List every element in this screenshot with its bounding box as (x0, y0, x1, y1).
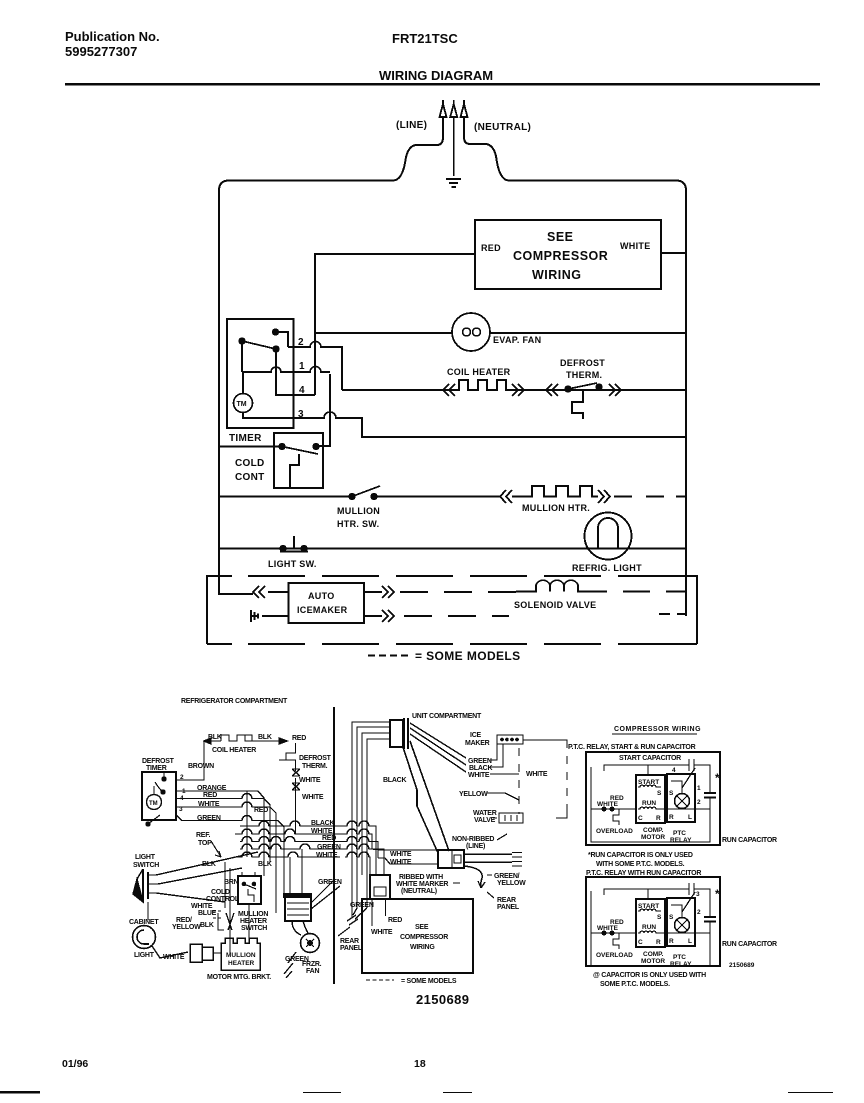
svg-text:REAR: REAR (497, 897, 516, 904)
svg-text:SWITCH: SWITCH (241, 925, 267, 932)
svg-text:(LINE): (LINE) (466, 843, 485, 850)
svg-text:BRN: BRN (224, 879, 239, 886)
svg-text:2: 2 (298, 337, 304, 348)
svg-text:= SOME MODELS: = SOME MODELS (415, 649, 521, 663)
svg-text:EVAP. FAN: EVAP. FAN (493, 335, 541, 345)
svg-text:WHITE: WHITE (302, 794, 324, 801)
svg-text:WHITE: WHITE (299, 777, 321, 784)
svg-text:GREEN: GREEN (468, 758, 492, 765)
svg-text:GREEN/: GREEN/ (494, 873, 520, 880)
svg-text:BLK: BLK (258, 734, 272, 741)
svg-text:WHITE: WHITE (620, 241, 651, 251)
svg-text:UNIT COMPARTMENT: UNIT COMPARTMENT (412, 713, 482, 720)
svg-text:COLD: COLD (211, 889, 230, 896)
svg-text:MULLION HTR.: MULLION HTR. (522, 503, 590, 513)
svg-text:RIBBED WITH: RIBBED WITH (399, 874, 443, 881)
svg-text:SOME P.T.C. MODELS.: SOME P.T.C. MODELS. (600, 981, 670, 988)
svg-text:BLACK: BLACK (311, 820, 334, 827)
svg-text:CONTROL: CONTROL (206, 896, 240, 903)
svg-text:RED: RED (388, 917, 402, 924)
svg-text:LIGHT: LIGHT (135, 854, 156, 861)
svg-text:AUTO: AUTO (308, 591, 335, 601)
svg-text:BLK: BLK (208, 734, 222, 741)
svg-text:WHITE: WHITE (390, 859, 412, 866)
svg-text:NON-RIBBED: NON-RIBBED (452, 836, 494, 843)
svg-text:REAR: REAR (340, 938, 359, 945)
svg-text:BLACK: BLACK (469, 765, 492, 772)
svg-text:FRT21TSC: FRT21TSC (392, 31, 458, 46)
svg-text:TIMER: TIMER (146, 765, 167, 772)
svg-text:RED: RED (292, 735, 306, 742)
svg-text:COIL HEATER: COIL HEATER (212, 747, 256, 754)
svg-text:BLK: BLK (258, 861, 272, 868)
svg-text:SEE: SEE (547, 230, 574, 244)
svg-text:VALVE: VALVE (474, 817, 496, 824)
svg-text:REFRIG. LIGHT: REFRIG. LIGHT (572, 563, 642, 573)
svg-text:MAKER: MAKER (465, 740, 490, 747)
svg-text:PANEL: PANEL (497, 904, 520, 911)
svg-text:01/96: 01/96 (62, 1058, 88, 1070)
svg-text:DEFROST: DEFROST (560, 358, 605, 368)
svg-text:WHITE: WHITE (390, 851, 412, 858)
svg-text:HTR. SW.: HTR. SW. (337, 519, 379, 529)
svg-text:WITH SOME P.T.C. MODELS.: WITH SOME P.T.C. MODELS. (596, 861, 685, 868)
svg-text:*: * (715, 887, 720, 901)
svg-text:WATER: WATER (473, 810, 497, 817)
svg-text:PANEL: PANEL (340, 945, 363, 952)
svg-text:BROWN: BROWN (188, 763, 214, 770)
svg-text:2150689: 2150689 (729, 962, 755, 969)
svg-text:P.T.C. RELAY, START & RUN CAPA: P.T.C. RELAY, START & RUN CAPACITOR (568, 744, 696, 751)
svg-text:WHITE: WHITE (311, 828, 333, 835)
svg-text:COMPRESSOR WIRING: COMPRESSOR WIRING (614, 726, 701, 733)
svg-text:SWITCH: SWITCH (133, 862, 159, 869)
svg-text:REFRIGERATOR COMPARTMENT: REFRIGERATOR COMPARTMENT (181, 698, 288, 705)
svg-text:= SOME MODELS: = SOME MODELS (401, 978, 457, 985)
svg-text:WHITE: WHITE (371, 929, 393, 936)
svg-text:START CAPACITOR: START CAPACITOR (619, 755, 681, 762)
svg-text:BLK: BLK (200, 922, 214, 929)
svg-text:YELLOW: YELLOW (172, 924, 201, 931)
svg-text:4: 4 (672, 767, 676, 774)
svg-text:WHITE MARKER: WHITE MARKER (396, 881, 448, 888)
svg-text:Publication No.: Publication No. (65, 29, 160, 44)
svg-text:SEE: SEE (415, 924, 429, 931)
svg-text:COIL HEATER: COIL HEATER (447, 367, 511, 377)
svg-text:3: 3 (696, 891, 700, 898)
svg-text:RED: RED (254, 807, 268, 814)
svg-text:YELLOW: YELLOW (459, 791, 488, 798)
svg-text:HEATER: HEATER (228, 960, 255, 967)
svg-text:2150689: 2150689 (416, 992, 469, 1007)
svg-text:COLD: COLD (235, 458, 265, 469)
svg-text:REF.: REF. (196, 832, 210, 839)
svg-text:DEFROST: DEFROST (299, 755, 332, 762)
svg-text:CONT: CONT (235, 472, 265, 483)
svg-text:1: 1 (299, 361, 305, 372)
svg-text:RUN CAPACITOR: RUN CAPACITOR (722, 941, 777, 948)
svg-text:HEATER: HEATER (240, 918, 267, 925)
svg-text:BLACK: BLACK (383, 777, 406, 784)
svg-text:WHITE: WHITE (468, 772, 490, 779)
svg-text:LIGHT: LIGHT (134, 952, 155, 959)
svg-text:DEFROST: DEFROST (142, 758, 175, 765)
svg-text:WHITE: WHITE (191, 903, 213, 910)
svg-text:FAN: FAN (306, 968, 319, 975)
svg-text:TM: TM (149, 801, 158, 807)
svg-text:2: 2 (697, 909, 701, 916)
svg-text:MOTOR MTG. BRKT.: MOTOR MTG. BRKT. (207, 974, 271, 981)
svg-text:(NEUTRAL): (NEUTRAL) (401, 888, 437, 895)
svg-text:SOLENOID VALVE: SOLENOID VALVE (514, 600, 596, 610)
svg-text:THERM.: THERM. (566, 370, 602, 380)
svg-text:WIRING: WIRING (410, 944, 435, 951)
svg-text:ICEMAKER: ICEMAKER (297, 605, 348, 615)
svg-text:MULLION: MULLION (226, 952, 256, 959)
svg-text:RED: RED (481, 243, 501, 253)
svg-text:*RUN CAPACITOR IS ONLY USED: *RUN CAPACITOR IS ONLY USED (588, 852, 693, 859)
svg-text:(LINE): (LINE) (396, 120, 427, 131)
svg-text:COMPRESSOR: COMPRESSOR (400, 934, 448, 941)
svg-text:TM: TM (237, 401, 247, 408)
svg-text:GREEN: GREEN (317, 844, 341, 851)
svg-text:RED/: RED/ (176, 917, 192, 924)
svg-text:18: 18 (414, 1058, 426, 1070)
svg-text:BLK: BLK (202, 861, 216, 868)
svg-text:WIRING: WIRING (532, 268, 582, 282)
svg-text:3: 3 (298, 409, 304, 420)
svg-text:MULLION: MULLION (238, 911, 268, 918)
svg-text:1: 1 (697, 785, 701, 792)
svg-text:FRZR.: FRZR. (302, 961, 322, 968)
svg-text:2: 2 (697, 799, 701, 806)
svg-text:ICE: ICE (470, 732, 482, 739)
svg-text:YELLOW: YELLOW (497, 880, 526, 887)
svg-text:TIMER: TIMER (229, 433, 262, 444)
svg-text:(NEUTRAL): (NEUTRAL) (474, 122, 531, 133)
svg-text:MULLION: MULLION (337, 506, 380, 516)
svg-text:*: * (715, 771, 720, 785)
svg-text:COMPRESSOR: COMPRESSOR (513, 249, 608, 263)
svg-text:TOP: TOP (198, 840, 212, 847)
svg-text:THERM.: THERM. (302, 763, 328, 770)
svg-text:RUN CAPACITOR: RUN CAPACITOR (722, 837, 777, 844)
svg-text:LIGHT SW.: LIGHT SW. (268, 559, 317, 569)
svg-text:WHITE: WHITE (526, 771, 548, 778)
svg-text:5995277307: 5995277307 (65, 44, 137, 59)
svg-text:WIRING DIAGRAM: WIRING DIAGRAM (379, 68, 493, 83)
svg-text:4: 4 (299, 385, 305, 396)
svg-text:@ CAPACITOR IS ONLY USED WITH: @ CAPACITOR IS ONLY USED WITH (593, 972, 706, 979)
